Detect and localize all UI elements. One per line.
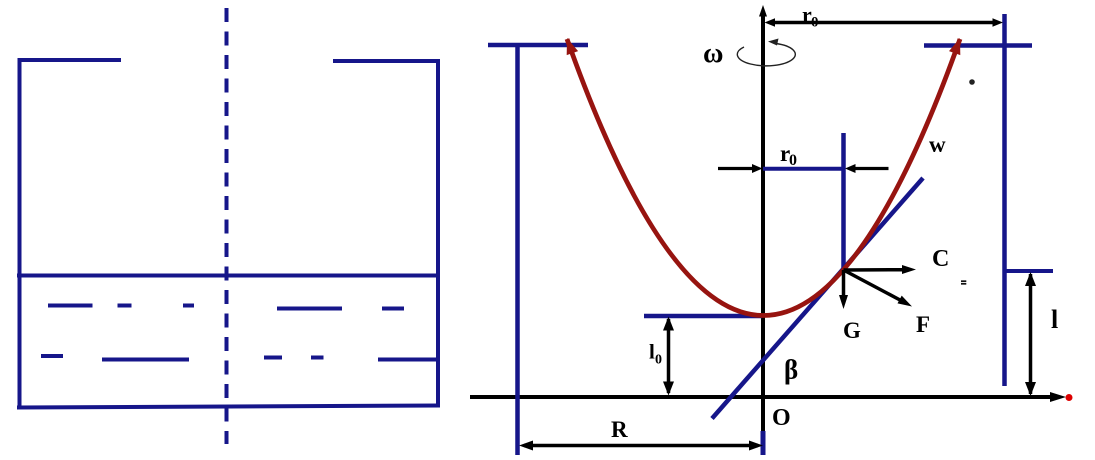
svg-text:0: 0 xyxy=(789,152,797,169)
svg-text:R: R xyxy=(611,417,628,442)
svg-text:G: G xyxy=(843,318,861,343)
svg-text:l: l xyxy=(1051,305,1058,334)
svg-text:F: F xyxy=(916,312,930,337)
svg-text:C: C xyxy=(932,246,949,272)
svg-text:0: 0 xyxy=(655,353,662,368)
svg-text:β: β xyxy=(784,355,798,385)
svg-text:O: O xyxy=(772,405,791,431)
svg-text:ω: ω xyxy=(703,38,723,69)
svg-text:0: 0 xyxy=(811,15,819,31)
svg-text:w: w xyxy=(929,132,946,157)
